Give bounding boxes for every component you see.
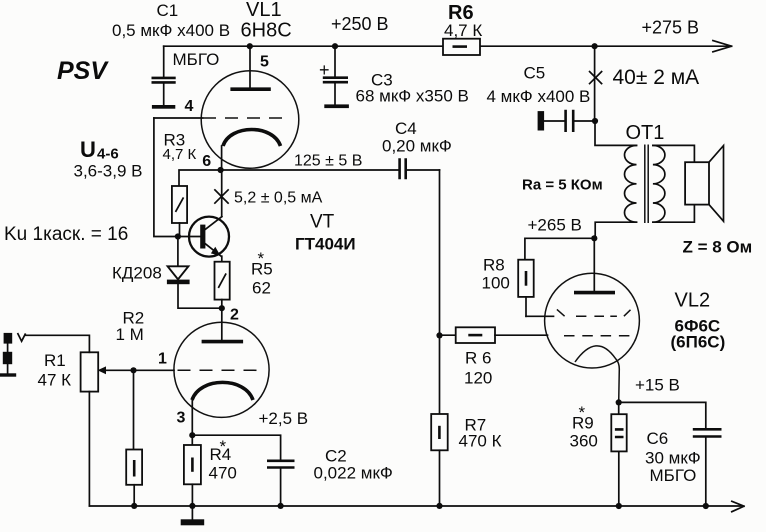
VL1 lower anode lead [221,308,223,340]
label R5 with asterisk [251,249,273,279]
svg-text:6: 6 [202,153,211,170]
collector lead to node6 [221,170,223,217]
svg-text:40± 2 мА: 40± 2 мА [613,66,700,89]
svg-text:С5: С5 [524,64,546,83]
capacitor C4 [400,158,440,179]
resistor R 6 (120) [440,327,548,343]
wire node6 to R3 [179,170,221,186]
svg-text:+265 В: +265 В [528,216,582,235]
transistor base bar [200,225,205,249]
svg-text:0,5 мкФ х400 В: 0,5 мкФ х400 В [112,21,230,40]
wire C4 down rail [439,170,441,414]
node R4-bus [189,503,195,509]
svg-text:+15 В: +15 В [635,376,680,395]
svg-text:Ra = 5 КОм: Ra = 5 КОм [522,177,603,194]
svg-text:30 мкФ: 30 мкФ [645,449,701,468]
resistor R9 [611,402,626,506]
svg-text:(6П6С): (6П6С) [671,333,726,352]
resistor R3 [172,186,187,223]
capacitor C1 [152,46,176,105]
svg-text:47 К: 47 К [38,371,72,390]
wire top bus left segment [164,45,443,47]
svg-text:125 ± 5 В: 125 ± 5 В [294,153,362,170]
VL1 upper grid lead pin 4 [154,117,203,119]
svg-text:470: 470 [209,464,237,483]
tube VL1 upper triode envelope [201,71,299,169]
svg-text:5: 5 [260,54,269,71]
svg-text:62: 62 [252,279,271,298]
diode КД208 [167,237,222,309]
wire R2 hanger [133,370,135,449]
wire R2 to bus [133,485,135,506]
resistor R6 (top 4,7 К) [443,39,480,55]
svg-text:120: 120 [464,369,492,388]
node C3 tap [332,43,338,49]
svg-text:КД208: КД208 [112,264,162,283]
svg-text:С1: С1 [157,1,179,20]
VL1 lower cathode lead [191,399,193,435]
resistor R7 [431,414,448,506]
wire R5 to node 2 [221,300,223,309]
capacitor C3 electrolytic [323,46,349,108]
svg-text:3,6-3,9 В: 3,6-3,9 В [74,162,143,181]
capacitor C5 [538,110,595,132]
svg-text:С4: С4 [395,119,417,138]
svg-text:С6: С6 [647,429,669,448]
svg-text:VT: VT [310,212,335,233]
wire base node to transistor [178,236,200,238]
transformer OT1 primary winding [595,121,637,238]
node pin5 tap [247,43,253,49]
svg-text:*: * [258,249,265,268]
svg-text:+: + [319,60,330,80]
wire jack to R1 top [25,335,89,352]
svg-text:VL1: VL1 [246,0,282,21]
transformer OT1 secondary winding [653,145,695,222]
wire top bus right segment with arrow to +275 В [480,41,732,52]
svg-text:4-6: 4-6 [97,146,119,163]
VL1 pin 5 anode lead [249,46,251,87]
svg-text:VL2: VL2 [675,290,711,312]
VL1 lower grid (dashed) [178,369,262,371]
svg-text:4 мкФ х400 В: 4 мкФ х400 В [487,87,591,106]
svg-text:PSV: PSV [57,57,109,85]
VL1 upper anode plate [230,87,270,91]
speaker [685,146,723,222]
node C5-primary [592,118,598,124]
wire node3 to C2 [192,435,280,460]
VL1 lower cathode [192,382,253,400]
svg-text:68 мкФ х350 В: 68 мкФ х350 В [356,87,469,106]
node OT1 tap [592,43,598,49]
tube VL2 envelope [545,273,640,368]
node grid tap [436,332,442,338]
wire grid-to-base left rail [154,118,178,237]
svg-text:1 М: 1 М [116,325,144,344]
transformer core [645,145,648,224]
ground stub and bar under R4 [181,506,205,525]
svg-text:МБГО: МБГО [650,466,697,485]
node 3 [189,432,195,438]
svg-text:ГТ404И: ГТ404И [295,235,356,254]
node 1 [130,367,136,373]
svg-text:5,2 ± 0,5 мА: 5,2 ± 0,5 мА [234,190,323,207]
chassis ground bar under C1 [152,105,175,109]
node C6-bus [703,503,709,509]
node R2-bus [131,503,137,509]
measuring mark x anode current [590,72,602,84]
potentiometer R1 [81,352,99,391]
label R4 with asterisk [210,437,232,464]
VL2 anode plate [574,291,615,295]
svg-text:*: * [220,437,227,456]
svg-text:Z = 8 Ом: Z = 8 Ом [683,238,753,257]
svg-text:4: 4 [185,98,194,115]
resistor R2 [126,450,142,485]
svg-text:R1: R1 [44,351,66,370]
wire node6 to C4 [221,169,399,171]
svg-text:100: 100 [482,274,510,293]
wire R1 bottom to ground bus [88,392,90,506]
input jack [0,333,25,377]
transistor VT circle [189,217,229,257]
tube VL1 lower triode envelope [174,322,269,417]
node R9-bus [616,503,622,509]
wire anode node to R8 [525,238,594,259]
svg-text:360: 360 [570,432,598,451]
svg-text:4,7 К: 4,7 К [163,146,197,163]
wire down to C5 node [594,46,596,121]
node 2 [219,305,225,311]
ground bus bottom with arrow [89,501,744,511]
transistor emitter with arrow [205,244,221,256]
VL2 anode lead [593,238,595,291]
label R9 with asterisk [572,403,594,433]
capacitor C2 [267,461,295,506]
wire R3 bottom to base node [179,223,181,237]
capacitor C6 [693,429,722,506]
VL1 upper grid (dashed) [203,117,291,119]
svg-text:Ku 1каск. = 16: Ku 1каск. = 16 [4,224,128,245]
svg-text:0,022 мкФ: 0,022 мкФ [314,464,393,483]
svg-text:2: 2 [230,307,239,324]
svg-text:U: U [80,137,96,162]
svg-text:*: * [579,403,586,422]
node C2-bus [278,503,284,509]
measuring mark x collector [215,190,228,203]
VL1 lower anode plate [202,340,244,344]
wire cathode node to C6 [619,402,706,429]
VL2 screen grid [526,309,631,316]
svg-text:ОТ1: ОТ1 [626,122,665,144]
resistor R8 [518,260,534,317]
svg-text:+2,5 В: +2,5 В [259,409,309,428]
svg-text:4,7 К: 4,7 К [444,21,482,40]
svg-text:1: 1 [158,351,167,368]
svg-text:R 6: R 6 [465,349,491,368]
svg-text:6Н8С: 6Н8С [241,20,292,42]
svg-text:0,20 мкФ: 0,20 мкФ [382,137,452,156]
svg-text:470 К: 470 К [459,432,502,451]
node VL2 anode [591,235,597,241]
node R7-bus [436,503,442,509]
wiper wire with arrow to R1 [98,366,175,374]
label U4-6 [80,137,119,163]
VL2 cathode [575,346,619,403]
node VL2 cathode [616,399,622,405]
resistor R4 [184,435,201,506]
resistor R5 [215,262,230,300]
node 6 [218,167,224,173]
VL2 control grid (dashed) [564,335,631,337]
transistor collector [205,217,222,230]
VL1 upper cathode [223,130,281,147]
svg-text:3: 3 [177,410,186,427]
svg-text:+275 В: +275 В [642,18,700,38]
svg-text:R8: R8 [483,256,505,275]
emitter lead to R5 [221,256,223,262]
svg-text:+250 В: +250 В [331,14,389,34]
node base [175,233,181,239]
svg-text:МБГО: МБГО [173,50,220,69]
VL1 upper cathode lead [221,146,223,170]
